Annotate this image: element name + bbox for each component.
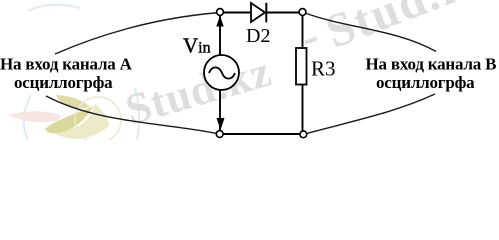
svg-text:На вход канала А: На вход канала А	[0, 55, 133, 74]
node bottom-left	[216, 131, 223, 138]
resistor R3	[296, 48, 307, 85]
arrow up	[216, 16, 223, 27]
watermark logo blue frame	[24, 5, 139, 140]
node bottom-right	[300, 131, 307, 138]
wire right rail upper	[302, 16, 304, 49]
svg-text:осциллогрфа: осциллогрфа	[376, 73, 475, 92]
source Vin circle	[204, 55, 239, 90]
svg-text:осциллогрфа: осциллогрфа	[14, 73, 113, 92]
watermark logo petals	[8, 95, 121, 143]
wire left rail lower	[219, 90, 221, 130]
svg-text:D2: D2	[246, 25, 270, 47]
wire top rail	[223, 12, 299, 14]
node top-left	[217, 9, 224, 16]
svg-text:R3: R3	[311, 57, 336, 81]
svg-text:На вход канала В: На вход канала В	[366, 55, 497, 74]
wire left rail upper	[219, 16, 221, 56]
callout curve top-left	[55, 13, 220, 55]
svg-text:Stud.kz: Stud.kz	[120, 47, 276, 135]
callout curve top-right	[305, 13, 436, 52]
wire right rail lower	[302, 85, 304, 131]
node top-right	[299, 9, 306, 16]
wire bottom rail	[223, 133, 300, 135]
callout curve bottom-left	[46, 96, 220, 134]
sine wave	[209, 67, 235, 78]
svg-text:Stud.kz: Stud.kz	[319, 0, 497, 59]
arrow down	[217, 118, 225, 130]
callout curve bottom-right	[305, 94, 435, 134]
diode D2	[251, 3, 265, 22]
svg-text:Vin: Vin	[183, 34, 211, 58]
